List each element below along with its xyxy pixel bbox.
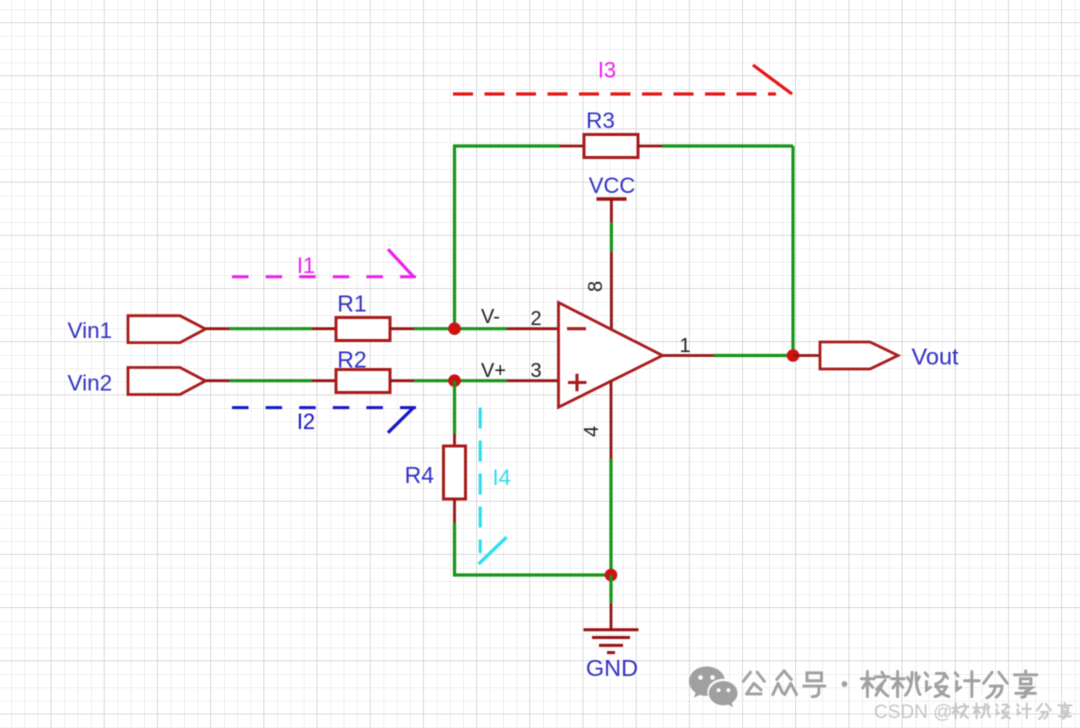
current arrow I4 dashed line bbox=[479, 408, 482, 554]
wire: ground stem bbox=[610, 603, 613, 629]
current arrow I2 dashed line bbox=[232, 406, 416, 409]
resistor R3 bbox=[584, 135, 638, 158]
pin 3 lead of op-amp bbox=[507, 379, 559, 382]
watermark text line 2 bbox=[874, 702, 1071, 723]
pin 4 lead of op-amp bbox=[610, 380, 613, 459]
svg-text:R3: R3 bbox=[586, 108, 615, 133]
wire: R3 left lead bbox=[560, 145, 584, 148]
op-amp plus sign bbox=[568, 374, 587, 392]
svg-text:R4: R4 bbox=[405, 462, 435, 488]
wire: R3 row left horizontal bbox=[453, 144, 560, 147]
wire: R1 to V- node bbox=[414, 327, 507, 330]
wire: output node stub bbox=[793, 354, 820, 357]
svg-text:Vout: Vout bbox=[912, 344, 960, 370]
wire: R2 to V+ node bbox=[414, 379, 507, 382]
svg-text:Vin1: Vin1 bbox=[68, 318, 113, 343]
svg-text:I1: I1 bbox=[297, 253, 315, 278]
svg-text:3: 3 bbox=[530, 360, 541, 382]
wire: VCC to pin 8 bbox=[610, 223, 613, 252]
wire: R4 top lead bbox=[453, 434, 456, 446]
pin 2 lead of op-amp bbox=[507, 327, 559, 330]
wire: Vin1 to R1 bbox=[229, 327, 312, 330]
ground symbol bbox=[584, 630, 639, 653]
wire: R3 row right horizontal bbox=[662, 144, 793, 147]
wire: feedback right vertical (down to output node) bbox=[791, 146, 794, 356]
current arrow I2 slash bbox=[388, 408, 414, 433]
svg-text:4: 4 bbox=[581, 426, 603, 437]
junction V- node bbox=[448, 322, 461, 335]
svg-text:I3: I3 bbox=[598, 58, 616, 83]
power symbol VCC stem bbox=[610, 199, 613, 223]
watermark text line 1 bbox=[743, 671, 1037, 698]
wire: R2 left lead bbox=[312, 379, 336, 382]
svg-text:R1: R1 bbox=[337, 291, 366, 317]
current arrow I4 slash bbox=[479, 537, 507, 564]
port Vout bbox=[820, 342, 898, 369]
pin 8 lead of op-amp bbox=[610, 252, 613, 330]
wire: pin 4 to ground node bbox=[609, 459, 612, 575]
current arrow I1 slash bbox=[388, 249, 414, 277]
port Vin2 bbox=[128, 368, 206, 395]
svg-text:V-: V- bbox=[481, 306, 500, 328]
pin 1 lead of op-amp bbox=[663, 354, 714, 357]
wire: V+ node down to R4 bbox=[453, 381, 456, 434]
current arrow I1 dashed line bbox=[232, 275, 416, 278]
wire: R4 bottom lead bbox=[453, 499, 456, 523]
current arrow I3 slash bbox=[753, 65, 792, 94]
wire: R1 left lead bbox=[312, 327, 336, 330]
svg-text:V+: V+ bbox=[481, 360, 506, 382]
svg-text:2: 2 bbox=[530, 308, 541, 330]
svg-text:I4: I4 bbox=[493, 465, 511, 490]
svg-text:VCC: VCC bbox=[589, 173, 636, 198]
svg-text:8: 8 bbox=[585, 281, 607, 292]
wire: ground node down bbox=[609, 575, 612, 603]
svg-text:I2: I2 bbox=[297, 409, 315, 434]
watermark wechat icon bbox=[689, 666, 738, 707]
junction ground node bbox=[605, 569, 618, 582]
power symbol VCC bar bbox=[597, 197, 627, 200]
svg-text:GND: GND bbox=[586, 655, 638, 681]
current arrow I3 dashed line bbox=[453, 92, 776, 95]
svg-text:1: 1 bbox=[679, 335, 690, 357]
junction output node bbox=[787, 349, 800, 362]
port Vin1 bbox=[128, 316, 206, 343]
wire: Vin2 to R2 bbox=[229, 379, 312, 382]
junction V+ node bbox=[448, 374, 461, 387]
wire: feedback left vertical (V- node up to R3 row) bbox=[453, 146, 456, 330]
wire: Vin1 port stub bbox=[206, 327, 230, 330]
wire: R4 down to bottom row bbox=[453, 523, 456, 577]
wire: R1 right lead bbox=[390, 327, 414, 330]
resistor R1 bbox=[336, 318, 390, 341]
op-amp minus sign bbox=[567, 327, 586, 330]
wire: Vin2 port stub bbox=[206, 379, 230, 382]
svg-text:CSDN @: CSDN @ bbox=[874, 702, 952, 723]
resistor R2 bbox=[336, 370, 390, 393]
resistor R4 bbox=[444, 446, 466, 499]
wire: output to node bbox=[714, 354, 793, 357]
svg-text:Vin2: Vin2 bbox=[68, 371, 113, 396]
wire: bottom horizontal to ground node bbox=[453, 573, 611, 576]
op-amp U1 body bbox=[559, 303, 663, 408]
wire: R2 right lead bbox=[390, 379, 414, 382]
wire: R3 right lead bbox=[638, 145, 662, 148]
